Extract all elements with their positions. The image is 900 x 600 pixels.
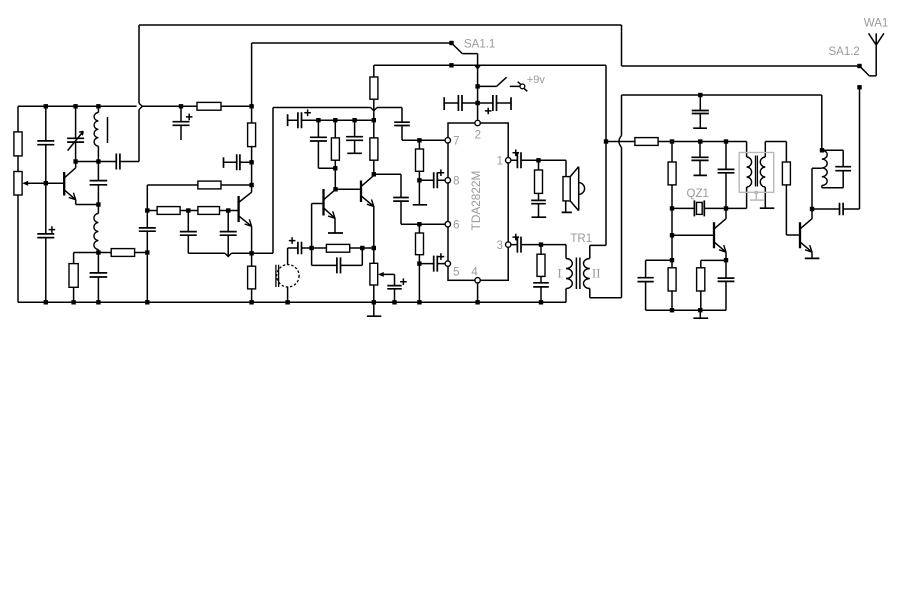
svg-text:TDA2822M: TDA2822M: [469, 171, 483, 231]
svg-text:SA1.1: SA1.1: [464, 39, 495, 51]
svg-text:I: I: [557, 265, 561, 280]
svg-text:SA1.2: SA1.2: [829, 46, 860, 58]
svg-text:+9v: +9v: [527, 74, 546, 86]
svg-text:II: II: [592, 265, 601, 280]
svg-text:TR1: TR1: [570, 233, 592, 245]
svg-text:7: 7: [453, 136, 459, 148]
svg-text:1: 1: [497, 156, 503, 168]
svg-text:4: 4: [471, 267, 478, 279]
svg-text:2: 2: [475, 130, 481, 142]
svg-text:6: 6: [453, 220, 459, 232]
svg-text:8: 8: [453, 176, 459, 188]
svg-text:5: 5: [453, 267, 459, 279]
svg-text:WA1: WA1: [864, 18, 889, 30]
svg-text:QZ1: QZ1: [687, 188, 709, 200]
svg-text:3: 3: [497, 240, 503, 252]
